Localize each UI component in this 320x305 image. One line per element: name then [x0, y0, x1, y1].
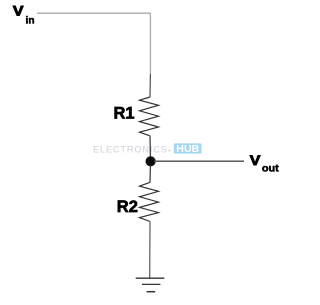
wire Vin horizontal	[37, 12, 151, 14]
svg-text:V: V	[250, 152, 261, 168]
svg-text:HUB: HUB	[176, 144, 199, 155]
wire node to R2	[149, 165, 151, 182]
wire Vin vertical lower	[149, 74, 151, 97]
svg-text:R1: R1	[114, 105, 135, 123]
wire R1 to node	[149, 136, 151, 158]
ground	[136, 277, 165, 279]
wire R2 to ground	[149, 222, 151, 279]
watermark dot	[169, 150, 171, 152]
node junction	[146, 156, 156, 166]
watermark HUB badge	[174, 143, 202, 153]
resistor R2	[140, 182, 159, 221]
svg-text:ELECTRONICS: ELECTRONICS	[93, 144, 168, 154]
wire node to Vout	[154, 160, 244, 162]
svg-text:in: in	[26, 16, 35, 27]
resistor R1	[140, 97, 159, 136]
wire Vin vertical upper	[149, 13, 151, 74]
svg-text:out: out	[262, 163, 280, 174]
svg-text:R2: R2	[117, 198, 138, 216]
svg-text:V: V	[13, 2, 24, 18]
